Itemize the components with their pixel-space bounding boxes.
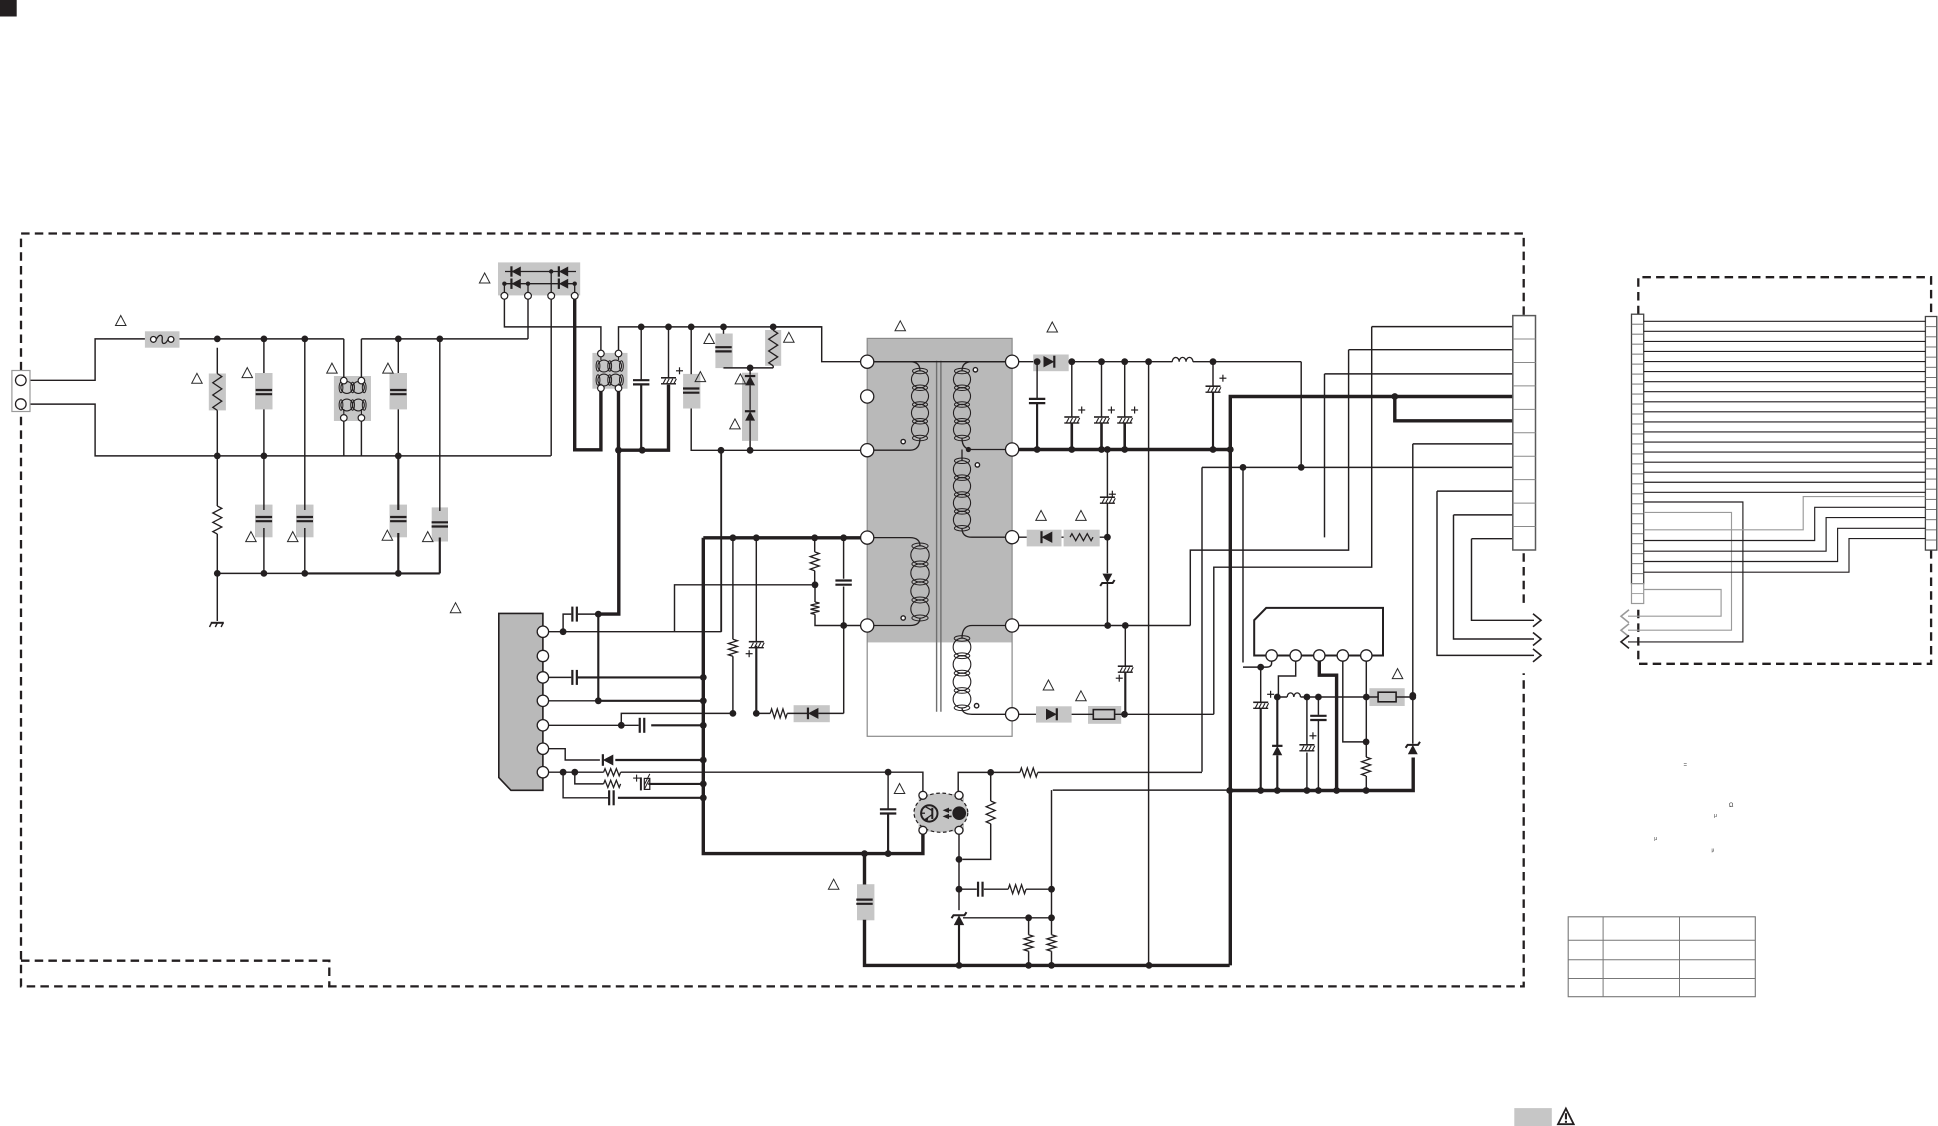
svg-text:μ: μ <box>1654 836 1657 842</box>
svg-text:μ: μ <box>1712 848 1715 854</box>
svg-text:μ: μ <box>1714 813 1717 819</box>
svg-text:Ω: Ω <box>1729 803 1734 809</box>
svg-text:=: = <box>1684 763 1688 769</box>
